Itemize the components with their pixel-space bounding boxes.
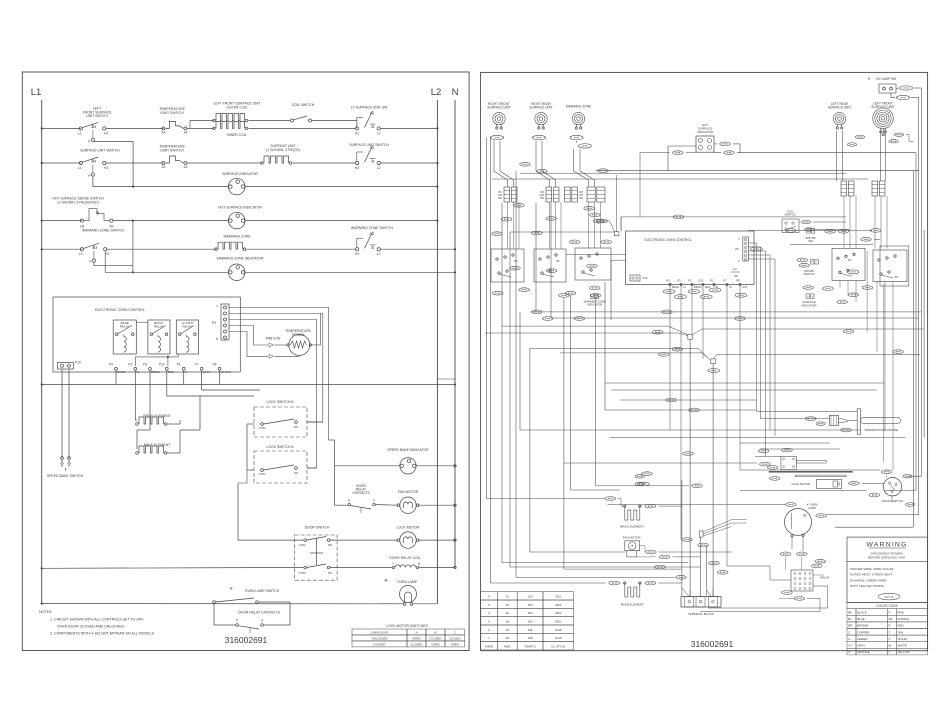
svg-text:EXAMPLE: GREEN WIRE: EXAMPLE: GREEN WIRE (850, 578, 886, 582)
svg-text:2: 2 (373, 499, 375, 503)
svg-text:BLACK: BLACK (857, 611, 867, 615)
svg-text:TERMINAL BLOCK: TERMINAL BLOCK (688, 612, 714, 616)
svg-text:COM: COM (259, 426, 267, 430)
svg-text:R2: R2 (848, 258, 852, 262)
svg-text:L1: L1 (79, 252, 83, 256)
svg-text:L1: L1 (78, 131, 82, 135)
svg-text:WHITE: WHITE (898, 644, 907, 648)
svg-text:P1: P1 (177, 363, 181, 367)
svg-text:N: N (452, 87, 459, 98)
svg-text:RELAY: RELAY (120, 325, 130, 329)
svg-text:BR: BR (848, 624, 852, 628)
svg-text:6: 6 (348, 499, 350, 503)
svg-text:WARMING ZONE SWITCH: WARMING ZONE SWITCH (82, 229, 124, 233)
svg-text:LOCKED: LOCKED (374, 642, 386, 646)
svg-text:150: 150 (528, 595, 533, 599)
svg-text:GREEN: GREEN (857, 637, 867, 641)
svg-text:NOTED FIRST, STRIPE NEXT.: NOTED FIRST, STRIPE NEXT. (850, 573, 893, 577)
svg-text:VIOLET: VIOLET (898, 637, 909, 641)
svg-text:P2: P2 (128, 363, 132, 367)
svg-text:COM: COM (259, 472, 267, 476)
svg-text:LIMIT SWITCH: LIMIT SWITCH (160, 111, 184, 115)
svg-text:H2: H2 (355, 252, 359, 256)
svg-text:WARMING ZONE: WARMING ZONE (566, 105, 591, 109)
svg-text:P7: P7 (195, 363, 199, 367)
svg-text:(1 SHOWN, 5 REQUIRED): (1 SHOWN, 5 REQUIRED) (57, 200, 98, 204)
svg-text:OV LAMP SW: OV LAMP SW (876, 77, 896, 81)
svg-text:SURFACE UNIT: SURFACE UNIT (871, 105, 894, 109)
svg-text:P5: P5 (212, 321, 216, 325)
svg-text:12: 12 (506, 595, 510, 599)
svg-text:INDICATOR: INDICATOR (801, 303, 816, 307)
svg-text:7: 7 (392, 562, 394, 566)
svg-text:IN: IN (729, 285, 732, 289)
svg-text:INNER COIL: INNER COIL (227, 133, 247, 137)
svg-text:16: 16 (506, 603, 510, 607)
svg-text:DOOR SWITCH: DOOR SWITCH (882, 499, 904, 503)
svg-text:N: N (716, 285, 718, 289)
svg-text:LOCK SWITCH A: LOCK SWITCH A (267, 445, 295, 449)
svg-text:R: R (889, 624, 891, 628)
svg-text:3321: 3321 (555, 595, 562, 599)
svg-text:C: C (848, 630, 850, 634)
svg-text:DOOR RELAY CONTACTS: DOOR RELAY CONTACTS (238, 611, 281, 615)
svg-text:UNIT SWTCH: UNIT SWTCH (86, 114, 108, 118)
svg-text:C: C (454, 631, 456, 635)
svg-text:P8: P8 (213, 363, 217, 367)
svg-text:OVEN LAMP SWITCH: OVEN LAMP SWITCH (245, 589, 280, 593)
svg-text:P3: P3 (143, 363, 147, 367)
svg-text:FAN MOTOR: FAN MOTOR (623, 535, 642, 539)
svg-text:P1: P1 (710, 279, 714, 283)
svg-text:WARMING ZONE: WARMING ZONE (223, 235, 251, 239)
svg-text:1015: 1015 (555, 628, 562, 632)
svg-text:BROIL ELEMENT: BROIL ELEMENT (143, 414, 171, 418)
svg-text:SWITCH: SWITCH (803, 272, 814, 276)
svg-text:TRACER WIRE: WIRE COLOR: TRACER WIRE: WIRE COLOR (850, 567, 894, 571)
svg-text:UL STYLE: UL STYLE (551, 645, 565, 649)
svg-text:BAKE ELEMENT: BAKE ELEMENT (144, 443, 171, 447)
svg-text:LOCK SWITCH B: LOCK SWITCH B (266, 400, 294, 404)
svg-text:CLOSED: CLOSED (449, 636, 461, 640)
svg-text:L2 IN: L2 IN (203, 370, 210, 374)
svg-text:150: 150 (528, 611, 533, 615)
svg-text:R2: R2 (556, 259, 560, 263)
svg-text:COM: COM (299, 571, 307, 575)
svg-text:6: 6 (216, 337, 218, 341)
svg-text:8: 8 (418, 562, 420, 566)
svg-text:20: 20 (506, 636, 510, 640)
svg-text:B: B (435, 631, 437, 635)
svg-text:TEMPERATURE PROBE: TEMPERATURE PROBE (864, 428, 898, 432)
svg-text:BEFORE SERVICING UNIT.: BEFORE SERVICING UNIT. (868, 555, 906, 559)
svg-text:GY: GY (848, 644, 852, 648)
svg-text:3321: 3321 (555, 611, 562, 615)
svg-text:BROIL: BROIL (151, 370, 160, 374)
svg-text:H1: H1 (104, 166, 108, 170)
svg-text:NO: NO (294, 425, 299, 429)
svg-text:BL: BL (848, 617, 852, 621)
svg-text:P2: P2 (688, 279, 692, 283)
svg-text:NO: NO (328, 543, 333, 547)
svg-text:OVEN DOOR CLOSED AND UNLOCKED.: OVEN DOOR CLOSED AND UNLOCKED. (57, 625, 125, 629)
svg-text:L2: L2 (733, 267, 737, 271)
svg-text:DOOR RELAY COIL: DOOR RELAY COIL (389, 556, 420, 560)
svg-text:1. CIRCUIT SHOWN WITH ALL CON: 1. CIRCUIT SHOWN WITH ALL CONTROLS SET T… (50, 618, 144, 622)
svg-text:BLUE: BLUE (857, 617, 865, 621)
svg-text:WARNING: WARNING (867, 542, 908, 549)
svg-text:WARMING ZONE INDICATOR: WARMING ZONE INDICATOR (217, 257, 264, 261)
svg-text:CLOSED: CLOSED (430, 636, 442, 640)
svg-text:L2: L2 (377, 252, 381, 256)
svg-text:P13: P13 (699, 279, 704, 283)
svg-text:R2: R2 (895, 275, 899, 279)
svg-text:AWG: AWG (504, 645, 512, 649)
svg-text:(1 SHOWN, 3 REQ'D): (1 SHOWN, 3 REQ'D) (266, 148, 300, 152)
svg-text:OPEN: OPEN (451, 642, 459, 646)
svg-text:SPEED BAKE SWITCH: SPEED BAKE SWITCH (47, 474, 84, 478)
svg-text:V: V (889, 637, 891, 641)
svg-text:150: 150 (528, 620, 533, 624)
svg-text:PRB CON: PRB CON (266, 337, 281, 341)
svg-text:BAKE ELEMENT: BAKE ELEMENT (621, 602, 644, 606)
svg-text:H2: H2 (355, 166, 359, 170)
svg-text:RELAY: RELAY (154, 325, 164, 329)
svg-text:P3: P3 (677, 279, 681, 283)
svg-text:OPEN: OPEN (431, 642, 439, 646)
svg-text:LOCK MOTOR SWITCHES: LOCK MOTOR SWITCHES (386, 624, 428, 628)
svg-text:16: 16 (506, 628, 510, 632)
svg-text:1015: 1015 (555, 636, 562, 640)
svg-text:INDICATOR: INDICATOR (697, 130, 714, 134)
svg-text:Y: Y (889, 650, 891, 654)
svg-text:OVEN DOOR: OVEN DOOR (371, 631, 389, 635)
svg-text:N: N (185, 370, 187, 374)
svg-text:2. COMPONENTS WITH ✳ DO NOT: 2. COMPONENTS WITH ✳ DO NOT APPEAR ON AL… (50, 632, 155, 636)
svg-text:2A: 2A (161, 130, 166, 134)
svg-text:BAKE: BAKE (672, 285, 679, 289)
svg-text:RED: RED (898, 624, 904, 628)
svg-text:UNLOCKED: UNLOCKED (371, 636, 387, 640)
svg-text:LOCK MOTOR: LOCK MOTOR (396, 526, 420, 530)
svg-text:SPEED BAKE INDICATOR: SPEED BAKE INDICATOR (387, 448, 429, 452)
svg-text:3321: 3321 (555, 620, 562, 624)
svg-text:FAN MOTOR: FAN MOTOR (398, 490, 419, 494)
svg-text:3321: 3321 (555, 603, 562, 607)
svg-text:RELAY: RELAY (820, 576, 830, 580)
svg-text:L1: L1 (31, 87, 42, 98)
svg-text:1A: 1A (183, 165, 188, 169)
svg-text:BROWN: BROWN (857, 624, 868, 628)
svg-text:P: P (889, 611, 891, 615)
svg-text:G/Y- 8: G/Y- 8 (885, 595, 894, 599)
svg-text:PR: PR (889, 617, 893, 621)
svg-text:PINK: PINK (898, 611, 905, 615)
svg-text:DOOR SWITCH: DOOR SWITCH (305, 526, 330, 530)
svg-text:COIL SWITCH: COIL SWITCH (292, 103, 315, 107)
svg-text:LIMIT SWITCH: LIMIT SWITCH (160, 148, 184, 152)
svg-text:OPEN: OPEN (412, 636, 420, 640)
svg-text:SURFACE UNIT SWITCH: SURFACE UNIT SWITCH (80, 149, 120, 153)
svg-text:105: 105 (528, 628, 533, 632)
svg-text:W: W (889, 644, 892, 648)
svg-text:P4: P4 (109, 363, 113, 367)
svg-text:316002691: 316002691 (225, 635, 268, 645)
svg-text:LF SURFACE UNIT SW: LF SURFACE UNIT SW (351, 106, 388, 110)
svg-text:ELECTRONIC OVEN CONTROL: ELECTRONIC OVEN CONTROL (95, 308, 145, 312)
svg-text:IND: IND (808, 239, 813, 243)
svg-text:ELECTRONIC OVEN CONTROL: ELECTRONIC OVEN CONTROL (645, 238, 692, 242)
svg-text:OUTER COIL: OUTER COIL (226, 105, 247, 109)
svg-text:A: A (416, 631, 418, 635)
svg-text:WITH YELLOW STRIPE.: WITH YELLOW STRIPE. (850, 584, 885, 588)
svg-text:SWITCH: SWITCH (784, 213, 795, 217)
svg-text:316002691: 316002691 (691, 639, 734, 649)
svg-text:ORANGE: ORANGE (857, 650, 870, 654)
svg-text:1: 1 (216, 304, 218, 308)
svg-text:BAKE: BAKE (117, 370, 125, 374)
svg-text:✳: ✳ (229, 586, 233, 591)
svg-text:PURPLE: PURPLE (898, 617, 910, 621)
svg-text:P10: P10 (75, 361, 81, 365)
svg-text:P7: P7 (723, 279, 727, 283)
svg-text:LAMP: LAMP (808, 506, 816, 510)
svg-text:L2: L2 (377, 131, 381, 135)
svg-text:L2: L2 (377, 166, 381, 170)
svg-text:L1: L1 (78, 166, 82, 170)
svg-text:SURFACE UNIT SWITCH: SURFACE UNIT SWITCH (349, 143, 389, 147)
svg-text:BK: BK (848, 611, 852, 615)
svg-text:COPPER: COPPER (857, 630, 869, 634)
svg-text:COLOR CODE: COLOR CODE (876, 604, 897, 608)
svg-text:GRAY: GRAY (857, 644, 865, 648)
svg-text:BROIL ELEMENT: BROIL ELEMENT (620, 525, 644, 529)
svg-text:L2: L2 (431, 87, 442, 98)
svg-text:5: 5 (236, 619, 238, 623)
svg-text:2A: 2A (161, 165, 166, 169)
svg-text:P10: P10 (643, 276, 648, 280)
svg-text:3: 3 (261, 619, 263, 623)
svg-text:P10: P10 (159, 363, 165, 367)
svg-text:P5: P5 (735, 247, 739, 251)
svg-text:1A: 1A (183, 130, 188, 134)
svg-text:L2 OUT: L2 OUT (221, 370, 232, 374)
svg-text:H2: H2 (355, 131, 359, 135)
svg-text:H1: H1 (105, 252, 109, 256)
svg-text:SURFACE UNIT: SURFACE UNIT (529, 106, 552, 110)
svg-text:OUT: OUT (742, 285, 748, 289)
svg-text:P8: P8 (734, 274, 738, 278)
svg-text:BROIL: BROIL (694, 285, 702, 289)
svg-text:CLOSED: CLOSED (411, 642, 423, 646)
svg-text:18: 18 (506, 620, 510, 624)
svg-text:LOCK MOTOR: LOCK MOTOR (792, 482, 811, 486)
svg-text:TAN: TAN (898, 630, 904, 634)
svg-text:T: T (889, 630, 891, 634)
svg-text:20: 20 (506, 611, 510, 615)
svg-text:MDL: MDL (168, 370, 175, 374)
svg-text:NO: NO (294, 471, 299, 475)
svg-text:NOTES:: NOTES: (39, 610, 52, 614)
svg-text:TEMP°C: TEMP°C (524, 645, 537, 649)
svg-text:✳: ✳ (384, 578, 388, 584)
svg-text:L1: L1 (136, 370, 140, 374)
svg-text:150: 150 (528, 603, 533, 607)
svg-text:SURFACE UNIT: SURFACE UNIT (487, 106, 510, 110)
svg-text:H1: H1 (104, 131, 108, 135)
svg-text:HOT SURFACE INDICATOR: HOT SURFACE INDICATOR (218, 206, 262, 210)
svg-text:INDICATOR: INDICATOR (587, 303, 602, 307)
svg-text:RELAY: RELAY (182, 325, 192, 329)
svg-text:WARMING ZONE SWITCH: WARMING ZONE SWITCH (351, 226, 393, 230)
svg-text:COM: COM (299, 543, 307, 547)
svg-text:OVEN LAMP: OVEN LAMP (397, 580, 418, 584)
svg-text:P4: P4 (666, 279, 670, 283)
svg-text:105: 105 (528, 636, 533, 640)
svg-text:YELLOW: YELLOW (898, 650, 910, 654)
svg-text:SURFACE INDICATOR: SURFACE INDICATOR (222, 172, 258, 176)
svg-text:WIRE: WIRE (485, 645, 493, 649)
svg-text:P8: P8 (736, 279, 740, 283)
svg-text:SURFACE UNIT: SURFACE UNIT (828, 106, 851, 110)
svg-text:CONTACTS: CONTACTS (352, 491, 369, 495)
